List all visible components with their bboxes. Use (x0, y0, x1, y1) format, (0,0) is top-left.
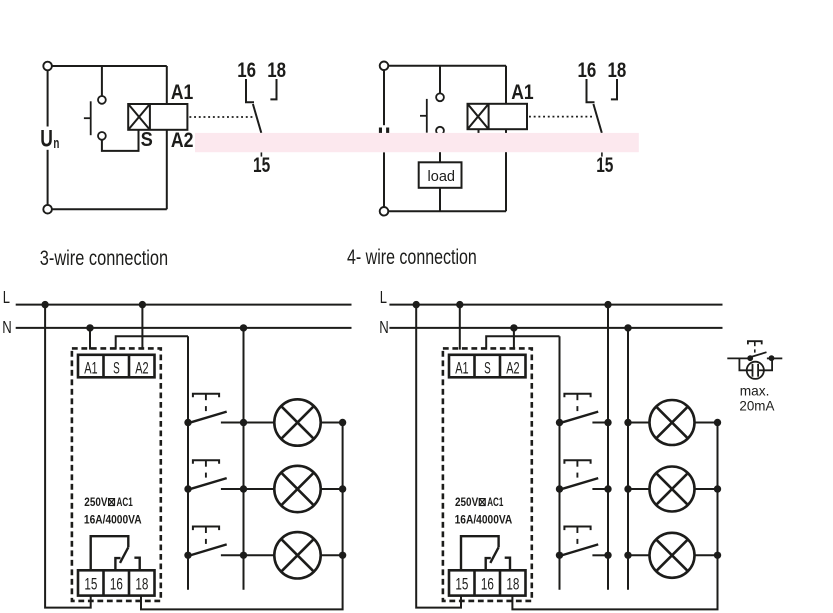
glow lamp electrode right (757, 364, 759, 377)
relay coil K1 crossed-square divider (149, 104, 151, 130)
svg-text:16: 16 (110, 575, 123, 594)
svg-text:16A/4000VA: 16A/4000VA (455, 514, 513, 526)
svg-text:A1: A1 (455, 358, 468, 377)
wire: S terminal hook to pushbutton column (4-wire) (486, 336, 559, 349)
junction dot row 2 pushbutton hinge (3-wire) (184, 485, 191, 492)
wire: middle feed column (4-wire) (607, 305, 609, 590)
svg-text:16: 16 (237, 58, 256, 82)
contact terminal 18 lead (left circuit) (270, 79, 276, 99)
output contact: fixed contact 18 (3-wire) (134, 558, 139, 571)
output contact: common 15 riser and bridge (4-wire) (461, 536, 499, 570)
relay coil box K2 (outline) (468, 104, 528, 129)
wire: top-left circuit left vertical (Un source), lower part (47, 150, 49, 205)
lamp row 1 right lead (3-wire) (321, 422, 343, 424)
wire: top-right circuit top horizontal (388, 65, 506, 67)
lamp row 1 cross diagonal 2 (4-wire) (656, 407, 688, 439)
wire: N bus (4-wire) (389, 327, 722, 329)
terminal block 15/16/18 divider 1 (3-wire) (102, 570, 105, 595)
terminal block divider 1 (3-wire) (102, 355, 105, 378)
pushbutton row 2 T-bar (4-wire) (564, 460, 590, 464)
wire: branch from top wire to pushbutton S1 (101, 66, 103, 96)
junction dot row 1 mid column (4-wire) (604, 419, 611, 426)
svg-text:A2: A2 (171, 128, 194, 152)
junction dot row 1 mid column (3-wire) (240, 419, 247, 426)
illum. pushbutton: actuator stem dash upper (754, 341, 756, 346)
lamp row 2 circle (3-wire) (274, 466, 320, 512)
lamp row 1 cross diagonal 1 (3-wire) (281, 406, 314, 439)
wire: top-right circuit left vertical upper part (383, 70, 385, 125)
junction dot: N bus to lamp feed column (4-wire) (624, 324, 631, 331)
lamp row 2 right lead (3-wire) (321, 488, 343, 490)
contact terminal 18 lead (right circuit) (611, 79, 617, 99)
lamp row 3 circle (4-wire) (650, 533, 695, 578)
wire: A2 feed (3-wire) (141, 305, 143, 350)
pushbutton row 1 stem dash lower (4-wire) (576, 406, 578, 411)
junction dot row 2 lamp return (4-wire) (714, 485, 721, 492)
wire: L bus (3-wire) (16, 304, 352, 306)
lamp row 1 circle (3-wire) (274, 399, 320, 445)
pushbutton row 3 stem dash upper (4-wire) (576, 527, 578, 534)
svg-text:S: S (113, 358, 120, 377)
wire: pushbutton S2 to load box (439, 135, 441, 163)
junction dot: bus to A1 (3-wire) (86, 324, 93, 331)
svg-text:S: S (141, 128, 153, 151)
wire: middle feed column (3-wire) (243, 328, 245, 590)
svg-text:A2: A2 (506, 358, 519, 377)
terminal block divider 2 (4-wire) (499, 355, 502, 378)
wire: A2 feed (4-wire) (513, 328, 515, 350)
illum. pushbutton: left lead (727, 357, 752, 359)
junction dot: L bus feeder (3-wire) (41, 301, 48, 308)
junction dot: L bus feeder (4-wire) (413, 301, 420, 308)
junction dot: bus to A2 (3-wire) (139, 301, 146, 308)
wire: lamp feed column (4-wire) (627, 328, 629, 590)
pushbutton row 1 T-bar (4-wire) (564, 394, 590, 398)
wire: N bus (3-wire) (16, 327, 352, 329)
lamp row 3 right lead (4-wire) (695, 554, 718, 556)
lamp row 3 circle (3-wire) (274, 532, 320, 578)
terminal block 15/16/18 divider 1 (4-wire) (473, 570, 476, 595)
lamp row 2 left lead (3-wire) (244, 488, 275, 490)
lamp row 3 cross diagonal 2 (3-wire) (281, 539, 314, 572)
pushbutton row 1 fixed contact stub (3-wire) (221, 422, 244, 424)
terminal block A1/S/A2 (3-wire) (78, 355, 155, 378)
pushbutton row 1 stem dash upper (3-wire) (205, 394, 207, 401)
illum. pushbutton: actuator stem dash lower (754, 349, 756, 352)
svg-text:250V: 250V (84, 497, 107, 509)
junction dot row 2 mid column (4-wire) (604, 485, 611, 492)
contact moving arm 15 (left circuit) (253, 104, 261, 133)
svg-text:15: 15 (455, 575, 468, 594)
lamp row 3 right lead (3-wire) (321, 554, 343, 556)
svg-text:L: L (3, 287, 10, 307)
svg-text:A1: A1 (84, 358, 97, 377)
wire: A1-A2 vertical through coil box K1 (166, 66, 168, 209)
svg-text:N: N (379, 317, 389, 337)
contact terminal 16 lead (left circuit) (246, 79, 254, 102)
wire: pushbutton column (3-wire) (187, 336, 189, 590)
output contact: common 15 riser and bridge (3-wire) (91, 536, 129, 570)
wire: load box to bottom wire (439, 188, 441, 212)
junction dot: bus to A1 (4-wire) (456, 301, 463, 308)
pushbutton S2 actuator tick (420, 115, 427, 117)
relay coil box K1 (outline) (128, 104, 187, 130)
wire: top-right circuit left vertical lower part (383, 152, 385, 207)
lamp row 2 right lead (4-wire) (695, 488, 718, 490)
junction dot: bus to mid column (3-wire) (240, 324, 247, 331)
output contact: fixed contact 16 (3-wire) (115, 558, 120, 570)
junction dot row 1 pushbutton hinge (4-wire) (556, 419, 563, 426)
relay coil K1 X diagonal 1 (128, 104, 150, 130)
wire: terminal 18 to lamp return column (3-wire) (141, 423, 343, 610)
relay coil K2 crossed-square divider (488, 104, 490, 129)
junction dot row 3 lamp feed column (4-wire) (624, 552, 631, 559)
dashed device outline box (4-wire) (443, 348, 532, 601)
illum. pushbutton: contact dot right (769, 355, 775, 361)
junction dot row 2 pushbutton hinge (4-wire) (556, 485, 563, 492)
lamp row 1 right lead (4-wire) (695, 422, 718, 424)
terminal block A1/S/A2 (4-wire) (449, 355, 526, 378)
pushbutton row 1 T-bar (3-wire) (193, 394, 219, 398)
pushbutton row 1 stem dash lower (3-wire) (205, 406, 207, 411)
junction dot row 1 pushbutton hinge (3-wire) (184, 419, 191, 426)
pushbutton row 2 stem dash lower (3-wire) (205, 473, 207, 478)
svg-text:18: 18 (267, 58, 286, 82)
lamp row 1 left lead (4-wire) (628, 422, 650, 424)
contact moving arm 15 (right circuit) (593, 104, 601, 133)
svg-text:U: U (40, 126, 53, 153)
junction dot: bus to mid column (4-wire) (604, 301, 611, 308)
junction dot row 3 mid column (3-wire) (240, 552, 247, 559)
wire: S-terminal link of right circuit (440, 129, 479, 151)
junction dot row 1 lamp feed column (4-wire) (624, 419, 631, 426)
svg-text:16: 16 (578, 58, 597, 82)
glow lamp internal lead right (758, 369, 764, 371)
lamp row 3 cross diagonal 2 (4-wire) (656, 539, 688, 571)
terminal block 15/16/18 divider 2 (4-wire) (499, 570, 502, 595)
lamp row 3 cross diagonal 1 (3-wire) (281, 539, 314, 572)
pushbutton row 3 T-bar (4-wire) (564, 527, 590, 531)
svg-text:15: 15 (253, 153, 270, 177)
pushbutton row 1 stem dash upper (4-wire) (576, 394, 578, 401)
rating crossed-box symbol (4-wire) (479, 499, 485, 506)
svg-text:250V: 250V (455, 497, 478, 509)
wire: A1 feed (3-wire) (89, 328, 91, 350)
junction dot row 1 lamp return (3-wire) (339, 419, 346, 426)
terminal circle: Un upper terminal (43, 62, 52, 71)
contact 15 lead stub below highlight (260, 152, 262, 156)
wire: from pushbutton S1 lower contact to S terminal (102, 130, 139, 151)
pushbutton S1 actuator bar (90, 101, 92, 135)
output contact: moving arm (4-wire) (490, 547, 498, 563)
pushbutton row 3 lever (3-wire) (188, 544, 227, 556)
svg-text:3-wire connection: 3-wire connection (40, 246, 168, 270)
dotted mechanical link from coil K1 to contact (189, 116, 253, 118)
pushbutton row 1 lever (3-wire) (188, 412, 227, 424)
svg-text:max.: max. (740, 383, 770, 399)
svg-text:A1: A1 (511, 80, 533, 104)
relay coil K2 X diagonal 2 (468, 104, 489, 129)
illum. pushbutton: lever (751, 352, 767, 357)
wire: L feeder down to terminal 15 (4-wire) (416, 305, 461, 608)
pushbutton row 2 fixed contact stub (3-wire) (221, 488, 244, 490)
pushbutton row 2 fixed contact stub (4-wire) (592, 488, 608, 490)
lamp row 2 left lead (4-wire) (628, 488, 650, 490)
pushbutton row 2 T-bar (3-wire) (193, 460, 219, 464)
pushbutton row 1 lever (4-wire) (560, 412, 599, 424)
pushbutton row 2 lever (3-wire) (188, 478, 227, 490)
wire: top-right circuit bottom horizontal (388, 210, 506, 212)
svg-text:load: load (428, 169, 456, 185)
pushbutton S1 lower contact circle (98, 132, 106, 140)
label Un of right circuit (visible stroke tops above highlight) (379, 128, 382, 134)
dashed device outline box (3-wire) (72, 348, 161, 601)
junction dot row 2 lamp return (3-wire) (339, 485, 346, 492)
pushbutton row 3 fixed contact stub (3-wire) (221, 554, 244, 556)
lamp row 1 left lead (3-wire) (244, 422, 275, 424)
relay coil K1 X diagonal 2 (128, 104, 150, 130)
lamp row 2 cross diagonal 2 (4-wire) (656, 473, 688, 505)
pushbutton S1 actuator tick (84, 117, 91, 119)
junction dot row 3 lamp return (4-wire) (714, 552, 721, 559)
junction dot: bus to A2 (4-wire) (510, 324, 517, 331)
terminal circle: Un lower terminal (43, 205, 52, 214)
svg-text:16A/4000VA: 16A/4000VA (84, 514, 142, 526)
wire: top-left circuit bottom horizontal (52, 208, 167, 210)
terminal circle: right circuit lower terminal (380, 207, 389, 216)
pushbutton row 2 stem dash lower (4-wire) (576, 473, 578, 478)
illum. pushbutton: contact dot left (747, 355, 753, 361)
svg-text:18: 18 (608, 58, 627, 82)
svg-text:S: S (484, 358, 491, 377)
pushbutton row 1 fixed contact stub (4-wire) (592, 422, 608, 424)
glow lamp internal lead left (747, 369, 753, 371)
output contact: moving arm (3-wire) (120, 547, 128, 563)
pushbutton row 3 T-bar (3-wire) (193, 527, 219, 531)
output contact: fixed contact 18 (4-wire) (505, 558, 510, 571)
wire: branch from top wire to pushbutton S2 (439, 66, 441, 94)
output contact: fixed contact 16 (4-wire) (486, 558, 491, 570)
illum. pushbutton: T-bar actuator (748, 341, 762, 344)
lamp row 1 cross diagonal 2 (3-wire) (281, 406, 314, 439)
illum. pushbutton: right lead (767, 357, 782, 359)
lamp row 2 cross diagonal 1 (4-wire) (656, 473, 688, 505)
terminal block 15/16/18 (4-wire) (449, 570, 526, 595)
highlight band over contact row (195, 133, 639, 152)
pushbutton row 3 stem dash lower (3-wire) (205, 539, 207, 544)
lamp row 3 left lead (3-wire) (244, 554, 275, 556)
pushbutton row 2 lever (4-wire) (560, 478, 599, 490)
terminal block divider 2 (3-wire) (128, 355, 131, 378)
terminal block 15/16/18 (3-wire) (78, 570, 155, 595)
svg-text:L: L (380, 287, 387, 307)
svg-text:N: N (2, 317, 12, 337)
svg-text:n: n (53, 135, 59, 152)
load box (419, 162, 462, 188)
lamp row 1 circle (4-wire) (650, 400, 695, 445)
junction dot row 3 pushbutton hinge (4-wire) (556, 552, 563, 559)
pushbutton row 2 stem dash upper (3-wire) (205, 460, 207, 467)
lamp row 2 cross diagonal 1 (3-wire) (281, 473, 314, 506)
svg-text:AC1: AC1 (487, 497, 504, 509)
svg-text:18: 18 (135, 575, 148, 594)
wire: L bus (4-wire) (389, 304, 722, 306)
junction dot row 1 lamp return (4-wire) (714, 419, 721, 426)
svg-text:20mA: 20mA (739, 397, 775, 413)
illum. pushbutton: glow lamp loop right side (764, 360, 772, 371)
wire: A1 feed (4-wire) (459, 305, 461, 350)
wire: S terminal hook to pushbutton column (3-wire) (116, 336, 188, 349)
pushbutton row 3 fixed contact stub (4-wire) (592, 554, 608, 556)
wire: A1-A2 vertical through coil box K2 (505, 66, 507, 212)
junction dot row 2 lamp feed column (4-wire) (624, 485, 631, 492)
pushbutton S2 lower contact circle (436, 127, 444, 135)
glow lamp electrode left (752, 364, 754, 377)
pushbutton row 3 lever (4-wire) (560, 544, 599, 556)
relay coil K2 X diagonal 1 (468, 104, 489, 129)
wire: top-left circuit left vertical (Un source), upper part (47, 70, 49, 126)
illum. pushbutton: glow lamp loop left side (739, 358, 746, 370)
svg-text:4- wire connection: 4- wire connection (347, 245, 477, 269)
lamp row 2 cross diagonal 2 (3-wire) (281, 473, 314, 506)
lamp row 2 circle (4-wire) (650, 467, 695, 512)
contact terminal 16 lead (right circuit) (587, 79, 595, 102)
lamp row 3 left lead (4-wire) (628, 554, 650, 556)
wire: top-left circuit top horizontal (52, 65, 167, 67)
svg-text:16: 16 (481, 575, 494, 594)
lamp row 1 cross diagonal 1 (4-wire) (656, 407, 688, 439)
terminal circle: right circuit upper terminal (380, 62, 389, 71)
junction dot row 3 lamp return (3-wire) (339, 552, 346, 559)
pushbutton S2 actuator bar (426, 99, 428, 133)
junction dot row 3 pushbutton hinge (3-wire) (184, 552, 191, 559)
pushbutton S2 upper contact circle (436, 93, 444, 101)
svg-text:18: 18 (506, 575, 519, 594)
svg-text:A1: A1 (171, 80, 193, 104)
contact 15 lead stub below highlight (right) (601, 152, 603, 156)
junction dot row 2 mid column (3-wire) (240, 485, 247, 492)
glow lamp circle (747, 362, 764, 379)
lamp row 3 cross diagonal 1 (4-wire) (656, 539, 688, 571)
junction dot row 3 mid column (4-wire) (604, 552, 611, 559)
svg-text:15: 15 (596, 153, 613, 177)
terminal block divider 1 (4-wire) (473, 355, 476, 378)
dotted mechanical link from coil K2 to contact (529, 116, 594, 118)
pushbutton S1 upper contact circle (98, 96, 106, 104)
pushbutton row 3 stem dash lower (4-wire) (576, 539, 578, 544)
terminal block 15/16/18 divider 2 (3-wire) (128, 570, 131, 595)
svg-text:AC1: AC1 (117, 497, 134, 509)
rating crossed-box symbol (3-wire) (109, 499, 115, 506)
svg-text:A2: A2 (135, 358, 148, 377)
pushbutton row 2 stem dash upper (4-wire) (576, 460, 578, 467)
wire: L feeder down to terminal 15 (3-wire) (45, 305, 91, 608)
wire: pushbutton column (4-wire) (559, 336, 561, 590)
pushbutton row 3 stem dash upper (3-wire) (205, 527, 207, 534)
wire: terminal 18 to lamp return column (4-wire) (512, 423, 717, 610)
svg-text:15: 15 (84, 575, 97, 594)
